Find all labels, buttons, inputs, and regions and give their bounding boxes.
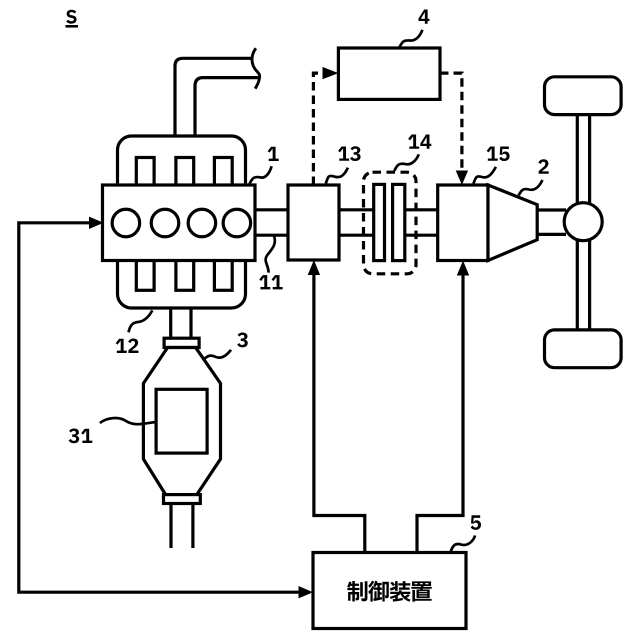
leader 11: [266, 236, 275, 272]
dashed wire 4 to 15: [440, 73, 462, 170]
shaft clutch to 15: [405, 208, 438, 211]
label 3: [237, 333, 248, 348]
transmission cone 2: [488, 185, 537, 261]
leader 4: [399, 30, 422, 48]
arrowhead into 13 bottom: [308, 260, 320, 275]
clutch plate right: [393, 184, 405, 260]
label 13: [338, 147, 349, 161]
label 15: [487, 147, 498, 161]
label 11: [259, 275, 270, 289]
clutch dashed box 14: [364, 172, 417, 274]
cylinder bars bottom: [136, 258, 154, 290]
leader 31: [100, 418, 156, 424]
arrowhead into 4: [323, 67, 339, 79]
label 2: [538, 159, 548, 174]
wheel top: [545, 77, 622, 115]
arrowhead into 15 bottom: [457, 261, 469, 276]
leader 1: [249, 166, 271, 184]
leader 3: [204, 350, 232, 360]
label 12: [116, 339, 127, 353]
clutch plate left: [374, 184, 385, 260]
cylinder bars top: [136, 158, 154, 188]
label S: [66, 10, 76, 24]
arrowhead into box 5: [299, 586, 314, 598]
arrowhead into 15 top: [456, 171, 468, 186]
engine cylinder circles: [112, 209, 139, 237]
shaft 13 to clutch: [339, 208, 374, 211]
axle shaft: [576, 114, 579, 330]
output shaft: [537, 208, 566, 211]
label 4: [419, 10, 430, 24]
wire 5 to 13: [314, 274, 365, 553]
battery box 4: [338, 48, 440, 99]
leader 13: [326, 168, 348, 184]
wheel bottom: [545, 330, 622, 368]
label 1: [268, 147, 279, 161]
label 14: [408, 135, 419, 149]
control device text: [347, 581, 367, 601]
flange top: [164, 338, 199, 347]
pipe break squiggle: [252, 48, 260, 88]
label 5: [471, 515, 481, 530]
leader 12: [129, 310, 153, 332]
shaft 11: [255, 208, 288, 211]
arrowhead into engine: [89, 217, 104, 229]
catalyst element 31: [156, 389, 207, 453]
intake pipe: [175, 58, 252, 137]
label 31: [69, 428, 80, 443]
leader 15: [473, 167, 496, 184]
leader 14: [394, 154, 418, 170]
transmission box 15: [438, 185, 488, 261]
tail pipe: [169, 504, 172, 549]
exhaust pipe: [169, 308, 172, 338]
engine cover outline: [118, 136, 246, 308]
engine block 1: [103, 185, 256, 261]
leader 2: [519, 180, 543, 195]
motor generator box 13: [288, 185, 339, 260]
flange bottom: [164, 495, 201, 504]
feedback wire left: [19, 223, 299, 592]
catalytic converter 3: [143, 348, 220, 495]
wire 5 to 15: [417, 274, 463, 553]
control device box 5: [313, 553, 466, 629]
differential circle: [564, 203, 602, 241]
leader 5: [451, 536, 476, 553]
dashed wire 13 to 4: [313, 73, 322, 185]
